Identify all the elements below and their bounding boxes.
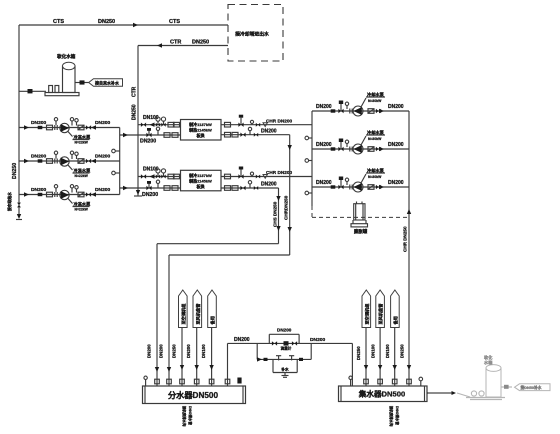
svg-text:DN250: DN250	[356, 346, 361, 360]
svg-text:CTS: CTS	[53, 19, 64, 25]
svg-text:N=22kW: N=22kW	[75, 174, 89, 178]
svg-text:接机房排水沟: 接机房排水沟	[389, 406, 394, 427]
svg-text:DN250: DN250	[192, 40, 209, 46]
svg-text:DN200: DN200	[159, 344, 164, 358]
svg-text:备用: 备用	[209, 316, 216, 324]
svg-text:CTS: CTS	[169, 19, 180, 25]
svg-text:DN200: DN200	[95, 187, 111, 193]
svg-text:CHRDN250: CHRDN250	[284, 195, 289, 220]
svg-text:N=30kW: N=30kW	[368, 175, 382, 179]
svg-text:制热1145kW: 制热1145kW	[189, 127, 212, 133]
svg-text:至空调机组: 至空调机组	[180, 303, 187, 325]
svg-text:DN200: DN200	[388, 142, 404, 148]
svg-text:DN200: DN200	[261, 182, 277, 188]
svg-text:板换: 板换	[197, 183, 206, 189]
svg-text:至风机盘管: 至风机盘管	[194, 303, 201, 325]
svg-text:DN200: DN200	[31, 120, 47, 126]
svg-text:CHS DN250: CHS DN250	[273, 201, 278, 227]
svg-text:DN250: DN250	[12, 163, 18, 179]
svg-text:DN200: DN200	[261, 128, 277, 134]
svg-text:制冷1137kW: 制冷1137kW	[189, 172, 212, 178]
svg-text:CTR: CTR	[132, 86, 138, 97]
svg-text:N=30kW: N=30kW	[368, 137, 382, 141]
svg-text:DN200: DN200	[310, 337, 326, 343]
svg-text:软化水箱: 软化水箱	[57, 53, 76, 60]
svg-text:DN200: DN200	[277, 328, 292, 333]
svg-text:接自来水补水: 接自来水补水	[95, 80, 120, 86]
svg-text:DN250: DN250	[132, 104, 138, 120]
svg-text:DN100: DN100	[371, 344, 376, 358]
svg-text:CHR DN200: CHR DN200	[266, 170, 292, 175]
svg-text:DN200: DN200	[140, 139, 156, 145]
svg-text:补水: 补水	[280, 367, 289, 372]
svg-text:DN200: DN200	[31, 187, 47, 193]
svg-text:至空调机组: 至空调机组	[363, 303, 370, 325]
svg-text:接市政给水: 接市政给水	[7, 192, 12, 212]
svg-text:制冷1137kW: 制冷1137kW	[189, 121, 212, 127]
svg-text:集水器DN500: 集水器DN500	[358, 389, 405, 399]
svg-text:DN200: DN200	[95, 154, 111, 160]
svg-text:CHR DN200: CHR DN200	[266, 118, 292, 123]
svg-text:板换: 板换	[197, 132, 206, 138]
svg-text:DN250: DN250	[172, 344, 177, 358]
svg-text:N=30kW: N=30kW	[368, 99, 382, 103]
svg-text:DN200: DN200	[142, 192, 158, 198]
svg-text:N=22kW: N=22kW	[75, 141, 89, 145]
svg-text:备用: 备用	[392, 316, 399, 324]
svg-text:DN250: DN250	[98, 19, 115, 25]
svg-text:DN100: DN100	[385, 344, 390, 358]
svg-text:流量计: 流量计	[281, 346, 292, 351]
svg-text:膨胀罐: 膨胀罐	[354, 228, 368, 235]
svg-text:分水器DN500: 分水器DN500	[168, 390, 218, 400]
svg-text:接冷却塔进出水: 接冷却塔进出水	[235, 31, 269, 38]
svg-text:DN200: DN200	[316, 180, 332, 186]
svg-text:CHR DN250: CHR DN250	[403, 226, 408, 252]
svg-text:至风机盘管: 至风机盘管	[377, 303, 384, 325]
svg-text:DN200: DN200	[95, 120, 111, 126]
svg-text:制热1145kW: 制热1145kW	[189, 177, 212, 183]
svg-text:接机房排水沟: 接机房排水沟	[182, 406, 187, 427]
svg-text:DN200: DN200	[234, 337, 250, 343]
svg-text:DN200: DN200	[316, 104, 332, 110]
svg-text:DN100: DN100	[201, 344, 206, 358]
svg-text:DN250: DN250	[400, 344, 405, 358]
svg-text:DN200: DN200	[31, 154, 47, 160]
svg-text:DN200: DN200	[316, 142, 332, 148]
svg-text:DN200: DN200	[388, 180, 404, 186]
svg-text:DN200: DN200	[147, 344, 152, 358]
svg-text:DN40泄水管: DN40泄水管	[395, 406, 400, 425]
svg-text:接DN50补水: 接DN50补水	[520, 385, 542, 390]
svg-text:N=22kW: N=22kW	[75, 208, 89, 212]
svg-text:DN40泄水管: DN40泄水管	[188, 406, 193, 425]
svg-text:水箱: 水箱	[484, 359, 493, 366]
svg-text:CTR: CTR	[170, 40, 181, 46]
svg-text:DN200: DN200	[388, 104, 404, 110]
svg-text:DN200: DN200	[186, 344, 191, 358]
